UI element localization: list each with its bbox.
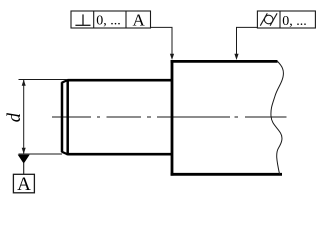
- svg-text:0, ...: 0, ...: [282, 14, 307, 29]
- dimension arrowhead bottom: [22, 148, 26, 154]
- small shaft top edge: [68, 79, 173, 82]
- dimension arrowhead top: [22, 80, 26, 86]
- cylindricity symbol in FCF2: [260, 13, 277, 25]
- feature control frame FCF1 (perpendicularity tolerance): [71, 11, 151, 28]
- leader wire from FCF2: [237, 27, 258, 55]
- small shaft bottom chamfer: [62, 152, 68, 155]
- svg-text:0, ...: 0, ...: [96, 14, 121, 29]
- dimension extension line bottom: [19, 153, 63, 155]
- large cylinder bottom edge: [171, 173, 282, 176]
- svg-text:A: A: [17, 174, 31, 195]
- leader arrowhead FCF1 pointing at shoulder corner: [170, 54, 174, 60]
- centerline (datum axis, dash-dot): [52, 116, 287, 118]
- small shaft chamfer edge line: [66, 79, 69, 155]
- break line (wavy) at right end: [271, 61, 284, 174]
- leader wire from FCF1: [151, 27, 173, 55]
- svg-text:d: d: [5, 112, 25, 122]
- svg-text:A: A: [133, 11, 146, 30]
- datum identification box: [13, 174, 34, 193]
- leader arrowhead FCF2 pointing at large cylinder surface: [234, 54, 238, 60]
- dimension line d: [23, 80, 25, 155]
- small shaft left end edge: [61, 82, 64, 152]
- datum connector wire: [23, 163, 25, 174]
- dimension extension line top: [19, 79, 67, 81]
- large cylinder shoulder face (left edge): [171, 60, 174, 176]
- datum feature triangle on extension line: [18, 155, 30, 164]
- perpendicularity symbol in FCF1: [75, 14, 90, 25]
- small shaft top chamfer: [62, 80, 68, 83]
- small shaft bottom edge: [68, 153, 173, 156]
- large cylinder top edge: [171, 60, 278, 63]
- feature control frame FCF2 (cylindricity tolerance): [257, 11, 315, 28]
